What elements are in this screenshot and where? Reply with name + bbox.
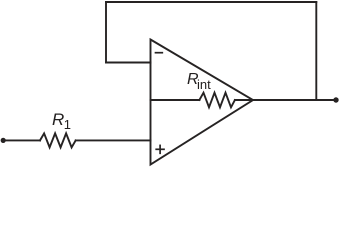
label R1 [52,110,71,132]
resistor R1 [40,133,76,147]
node: output terminal dot [333,97,338,102]
svg-text:R: R [52,110,64,129]
wire: output [253,99,336,101]
label Rint [187,71,211,92]
resistor Rint [199,93,235,108]
wire: R1 to non-inverting input [76,139,151,141]
wire: Rint to op-amp apex [235,99,253,101]
wire: internal middle wire to Rint [151,99,200,101]
wire: feedback top [106,1,316,3]
node: input terminal dot [1,138,6,143]
op-amp U1 [151,40,254,165]
svg-text:int: int [197,77,211,92]
plus sign (non-inverting input) [156,145,164,153]
wire: feedback right vertical [315,2,317,100]
wire: feedback lower stub to inverting input [106,62,151,64]
wire: feedback left vertical [105,2,107,63]
svg-text:1: 1 [64,117,71,132]
wire: input terminal to R1 [3,139,40,141]
minus sign (inverting input) [156,52,163,54]
